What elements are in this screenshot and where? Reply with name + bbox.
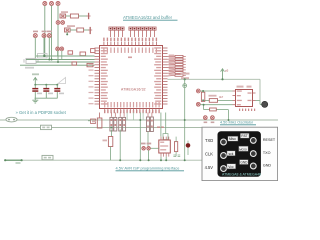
IC U1 bottom pin stubs (105, 109, 159, 113)
IC U1 top pin stubs (104, 42, 156, 46)
pin X17 (56, 47, 60, 51)
note ISP programming (116, 166, 185, 171)
label box RST (240, 133, 249, 138)
capacitor C9 xtal (91, 49, 95, 53)
svg-text:Vcc: Vcc (228, 165, 234, 169)
resistor R10 vertical (175, 137, 178, 157)
resistor R2 chain row2 (65, 27, 93, 34)
resistor R1 chain row1 (60, 13, 91, 19)
svg-text:Miso: Miso (229, 137, 236, 141)
svg-text:ATMEGA8 & ATMEGA48: ATMEGA8 & ATMEGA48 (222, 173, 261, 177)
pad SCK (221, 153, 227, 159)
caps below IC2 (173, 155, 180, 157)
wire thick gnd segment left (4, 159, 23, 163)
wire X10 drop (148, 150, 150, 160)
svg-text:4.5V AVR ISP programming inter: 4.5V AVR ISP programming interface (116, 166, 180, 171)
resistor R4 near IC (87, 63, 93, 66)
wire y100.4 segment (203, 99, 232, 101)
label R1 value (61, 11, 68, 13)
svg-text:TXD: TXD (205, 138, 213, 143)
capacitor C1 polarized (32, 85, 38, 99)
header JP1 pads (109, 27, 124, 30)
junction dots bottom lines (110, 119, 141, 161)
label pins mid-left (33, 31, 52, 33)
wire long net y160 (5, 159, 202, 161)
pin X5 (61, 21, 65, 25)
IC3 bottom pin numbers (239, 109, 255, 111)
pin X12 (196, 102, 200, 106)
capacitor C10 below IC (97, 113, 102, 129)
wire vertical x58 (57, 6, 59, 63)
wire vertical x184.7 (184, 79, 186, 120)
svg-text:GND: GND (263, 164, 272, 168)
wire y104.7 and y109.6 segments (200, 105, 232, 110)
IC3 inside names (237, 90, 252, 105)
label box GND (240, 160, 249, 165)
junction dots vcc rail (34, 84, 58, 86)
wire vertical x44.8 (44, 6, 46, 57)
note oscillator (220, 121, 256, 125)
wire row y65 (20, 64, 95, 66)
wire vertical x44 (43, 38, 45, 56)
IC3 buffer body (236, 90, 253, 107)
junction dot r7 top (202, 90, 204, 92)
op-amp U1 ATMEGA16/32 body (100, 46, 163, 109)
wire X10 to IC2 (150, 147, 158, 149)
crystal Q1 (24, 58, 38, 63)
junction dot X10 drop (148, 159, 150, 161)
svg-text:p5: p5 (225, 69, 229, 73)
junction dot x184.7 (184, 78, 186, 80)
svg-text:MOSI: MOSI (239, 147, 247, 151)
header JP1 pad dots (110, 28, 124, 30)
pad MOSI (250, 151, 256, 157)
wire net y79 right (168, 78, 261, 80)
RP stubs (111, 113, 151, 117)
wire vcc rail y84.7 (35, 84, 58, 86)
resistor R12 on net y120 (88, 119, 96, 123)
pad RST (250, 138, 256, 144)
supply VCC3 arrow (221, 69, 225, 80)
pin numbers row above IC (103, 38, 157, 41)
pin X4 (56, 21, 60, 25)
wire row y62 (36, 61, 95, 63)
resistor R8 horizontal (209, 99, 217, 103)
resistor network RN1 (175, 55, 183, 76)
svg-text:4.5V: 4.5V (205, 165, 214, 170)
IC U1 small center mark (128, 57, 132, 59)
svg-text:CLK: CLK (205, 151, 213, 156)
label IC3 name (237, 86, 252, 88)
resistor R11 horizontal (210, 108, 217, 111)
speaker SP1 (262, 101, 268, 107)
label VCC1 (32, 73, 39, 75)
offpage arrow symbol (58, 78, 66, 84)
RN1 left labels (169, 55, 175, 75)
wire IC2 left drop (160, 157, 162, 161)
header JP2 pads (129, 27, 156, 30)
junction dot IC2 drop (165, 159, 167, 161)
wire IC2 down to net (165, 157, 167, 161)
capacitor C11 light box (38, 54, 48, 59)
junction dot y100.4 (202, 99, 204, 101)
junction dot IC2 left drop (160, 159, 162, 161)
capacitor C3 polarized (54, 85, 60, 99)
resistor pair RP2 (119, 117, 126, 131)
labels cap values (37, 93, 64, 95)
labels X13 X14 (204, 122, 215, 124)
svg-text:ATMEGA16/32 and buffer: ATMEGA16/32 and buffer (123, 15, 173, 20)
junction dot vcc3 (221, 78, 223, 80)
capacitor C8 xtal (80, 52, 86, 56)
wire gnd rail y98.2 (35, 97, 58, 99)
connector frame box (202, 127, 278, 180)
label box Vcc (227, 164, 236, 169)
svg-text:RESET: RESET (263, 138, 276, 142)
junction dot y104.7 (203, 104, 205, 106)
pin X8 mid-left (47, 34, 51, 38)
green box G1 (163, 134, 168, 140)
IC U1 left inside pin names (101, 47, 108, 104)
fuse F1 on net y120 (6, 117, 17, 122)
resistor R7 vertical (201, 91, 204, 101)
wire vertical x51.5 (51, 6, 53, 60)
resistor R9 vertical (108, 137, 112, 161)
wire verticals below RP (111, 113, 165, 161)
IC U1 bottom inside pin names (104, 102, 160, 107)
junction dots xtal rows (43, 55, 59, 63)
wire row y56 (36, 55, 95, 57)
IC2 inside marks (160, 142, 168, 151)
supply VCC1 arrow (33, 78, 37, 85)
svg-text:ATMEGA16/32: ATMEGA16/32 (121, 88, 146, 92)
label box Miso (228, 136, 238, 141)
IC2 top stubs (161, 137, 169, 140)
IC U1 top inside pin names (103, 48, 157, 53)
wire long net y127.5 (0, 127, 202, 129)
svg-text:RST: RST (241, 134, 247, 138)
connector CON1 black body (218, 131, 261, 177)
label box MOSI (239, 146, 249, 151)
pin X11 (196, 89, 200, 93)
wire IC3 right to speaker (256, 100, 262, 104)
labels X9 X10 (141, 143, 151, 145)
wire X17 X18 stubs (58, 51, 62, 60)
IC U1 left pin stubs (95, 48, 100, 104)
resistor R3 on row (72, 62, 77, 65)
IC U1 right pin stubs (163, 48, 168, 104)
junction dots x184.7 lines (184, 119, 186, 161)
IC U1 outside left labels (89, 64, 94, 104)
wire vertical x35.3 to crystal (34, 38, 36, 59)
junction below R2 box (66, 32, 68, 35)
wire long net y120 (0, 119, 278, 121)
IC3 left stubs (233, 91, 236, 105)
label box sck (227, 151, 235, 156)
tiny marks above IC2 (157, 127, 164, 128)
label Q1 (25, 67, 34, 69)
jumper JP3 on net y127.5 (41, 125, 52, 129)
supply plus symbol (183, 84, 187, 88)
IC U1 right inside pin names (154, 47, 161, 104)
label R2 value (67, 25, 75, 27)
pin X9 (142, 147, 146, 151)
pin X3 top-left (56, 2, 60, 6)
wire speaker drop (259, 79, 261, 100)
pin X6 mid-left (33, 34, 37, 38)
ground symbol left (32, 98, 38, 103)
pad GND (250, 163, 256, 169)
label C10 (92, 121, 96, 123)
pin X10 (147, 147, 151, 151)
wire y90.3 (200, 90, 232, 92)
IC3 right stubs (253, 93, 256, 100)
svg-text:TXO: TXO (263, 151, 271, 155)
svg-text:sck: sck (229, 152, 234, 156)
wire IC3 to net y120 (228, 110, 230, 121)
wire vertical x49.3 (48, 38, 50, 60)
svg-text:4.50 MHz Oscillator: 4.50 MHz Oscillator (220, 121, 254, 125)
wire vertical x184.7 lower (184, 120, 186, 160)
pin numbers row below IC (104, 110, 160, 113)
svg-text:GND: GND (240, 161, 248, 165)
pin X7 mid-left (42, 34, 46, 38)
resistor pair RP1 (110, 117, 117, 131)
resistor pair RP3 (147, 117, 154, 132)
capacitor C2 polarized (43, 85, 49, 99)
pad MISO (221, 139, 227, 145)
RP inner marks (111, 119, 153, 128)
label R8 (209, 95, 224, 99)
RN1 wires (168, 56, 186, 76)
IC2 bottom stubs (161, 153, 169, 157)
header JP2 pad dots (130, 28, 156, 30)
svg-text:4k7: 4k7 (219, 95, 224, 99)
wire stubs IC bottom to net (127, 113, 143, 121)
header stubs down (111, 30, 155, 37)
pin X14 (211, 116, 215, 120)
heading note atmega and buffer (123, 15, 178, 20)
IC2 body (159, 140, 171, 153)
jumper JP4 on net y160 (42, 155, 53, 159)
pad VCC (221, 166, 227, 172)
label R9 (103, 140, 108, 142)
pin X1 top-left (43, 2, 47, 6)
label plus symbol (181, 73, 190, 75)
wire row y59.5 (26, 59, 95, 61)
capacitor C7 xtal (68, 51, 73, 54)
pin X13 (203, 116, 207, 120)
pin X2 top-left (50, 2, 54, 6)
svg-text:» Get it in a PDIP28 socket: » Get it in a PDIP28 socket (16, 110, 67, 115)
LED D1 (186, 141, 191, 155)
pin X18 (60, 47, 64, 51)
